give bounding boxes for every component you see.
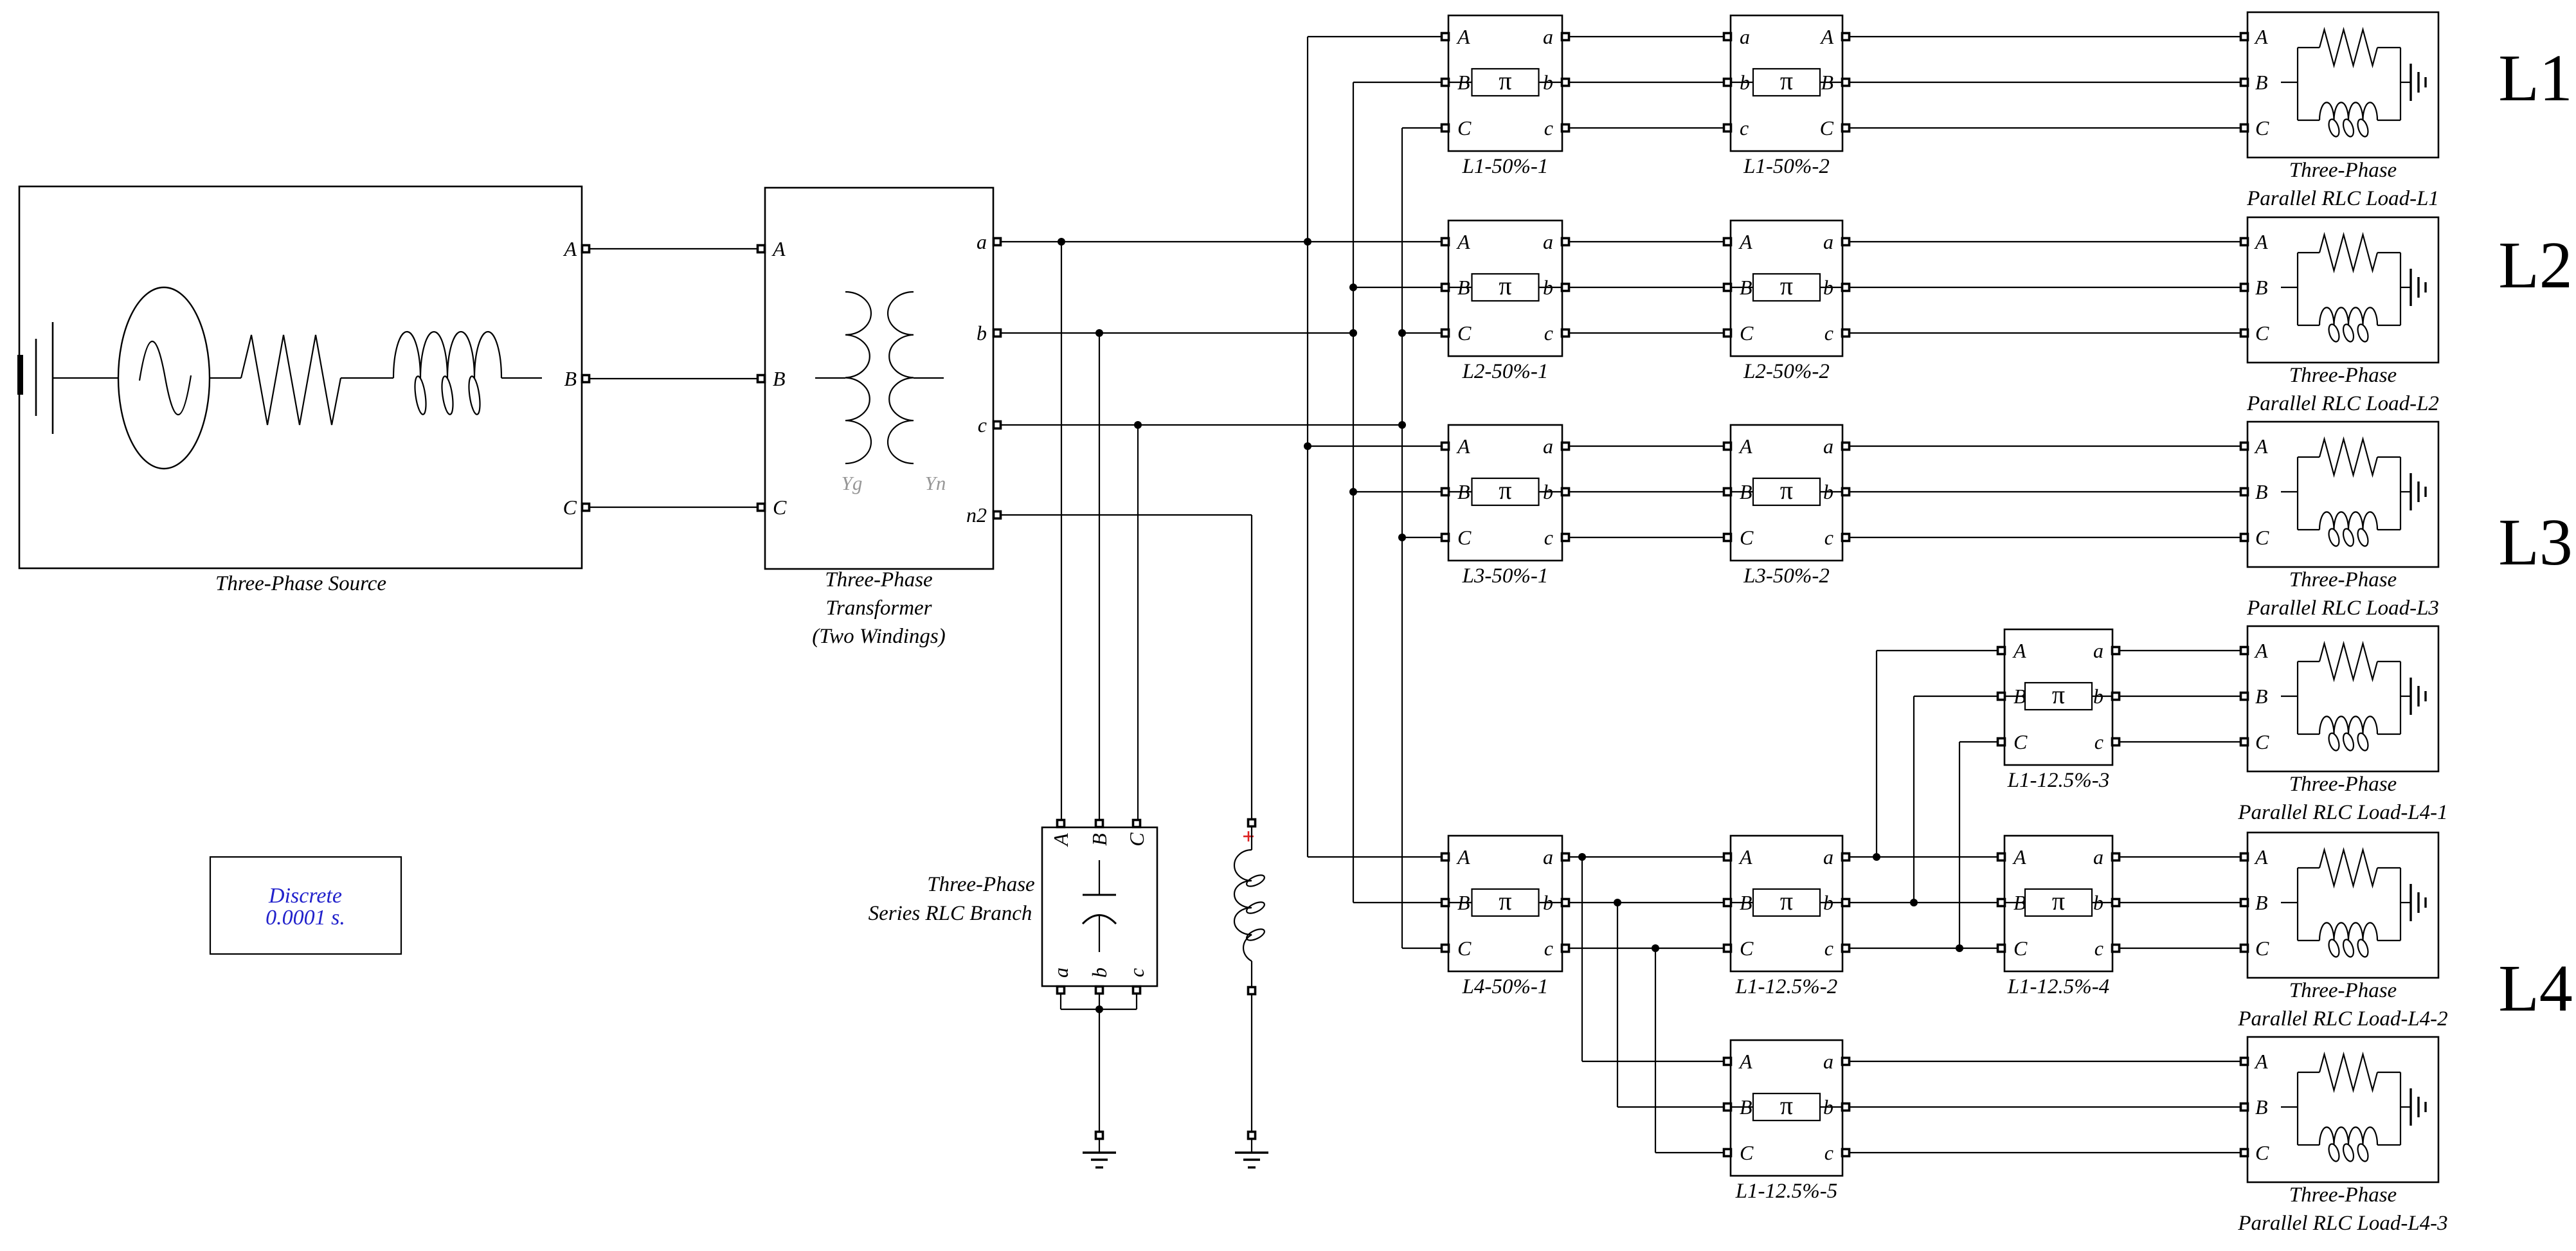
wire phase a line — [1000, 241, 1445, 242]
svg-text:L3: L3 — [2498, 505, 2573, 579]
source inductor loop 3 — [467, 375, 482, 415]
wire bus c to L1-50%-1 C — [1402, 127, 1445, 129]
svg-text:c: c — [1824, 526, 1833, 549]
Load-L4-1 left rail — [2297, 661, 2298, 734]
series RLC capacitor lead top — [1099, 860, 1100, 895]
svg-text:Three-Phase Source: Three-Phase Source — [215, 572, 386, 595]
Load-L1 inductor L loop 1 — [2327, 118, 2341, 138]
ground port square (RLC) — [1096, 1132, 1103, 1139]
svg-text:Parallel RLC Load-L2: Parallel RLC Load-L2 — [2246, 392, 2439, 415]
series RLC branch port b — [1096, 987, 1103, 994]
Load-L3 top branch wire2 — [2377, 456, 2400, 458]
Load-L4-1 inductor L loop 2 — [2341, 732, 2355, 752]
svg-text:C: C — [2013, 730, 2028, 753]
svg-text:Discrete: Discrete — [268, 884, 342, 908]
svg-text:b: b — [1823, 480, 1833, 503]
transformer port a — [994, 239, 1001, 246]
junction RLC join — [1095, 1005, 1103, 1013]
Load-L4-2 ground stub — [2400, 902, 2411, 903]
inductor Ln lead top — [1251, 827, 1252, 850]
Load-L1 ground stub — [2400, 82, 2411, 83]
Load-L1 inductor L loop 2 — [2341, 118, 2355, 138]
Load-L4-3 stub from B — [2281, 1106, 2298, 1108]
svg-text:b: b — [2093, 891, 2103, 914]
wire L1-12.5%-3 b to load L4-1 — [2119, 696, 2241, 697]
svg-text:B: B — [2255, 276, 2268, 299]
Load-L4-2 port C — [2241, 945, 2248, 952]
wire source A to transformer A — [589, 248, 761, 249]
Load-L1 port B — [2241, 79, 2248, 86]
source wire AC to R — [210, 377, 241, 379]
wire bus a to L1-50%-1 A — [1308, 36, 1445, 37]
svg-text:B: B — [2255, 685, 2268, 708]
svg-text:a: a — [977, 230, 987, 253]
wire bus b to L4-50%-1 B — [1353, 902, 1445, 903]
svg-text:c: c — [1824, 937, 1833, 960]
L3-50%-2 port B (left) — [1724, 489, 1731, 496]
three-phase parallel RLC load Load-L4-1 outline — [2247, 626, 2438, 771]
transformer port B — [758, 375, 765, 382]
inductor Ln loop 3 — [1245, 927, 1266, 942]
L3-50%-1 inner pi box — [1472, 478, 1539, 505]
L1-12.5%-4 stub b-right — [2092, 902, 2112, 903]
junction tap a to L1-12.5%-3 — [1873, 853, 1880, 861]
source inductor loop 1 — [413, 375, 428, 415]
svg-text:b: b — [1543, 891, 1553, 914]
junction a-drop — [1058, 238, 1065, 246]
wire bus a to L3-50%-1 A — [1308, 446, 1445, 447]
svg-text:a: a — [1543, 230, 1553, 253]
svg-text:Parallel RLC Load-L3: Parallel RLC Load-L3 — [2246, 597, 2439, 620]
wire source B to transformer B — [589, 378, 761, 379]
L1-12.5%-5 port c (right) — [1842, 1149, 1850, 1156]
svg-text:a: a — [1823, 435, 1833, 458]
svg-text:B: B — [564, 367, 577, 390]
Load-L1 right rail — [2400, 48, 2401, 120]
svg-text:A: A — [1738, 230, 1752, 253]
Load-L1 inductor L loop 3 — [2356, 118, 2370, 138]
svg-text:B: B — [2255, 891, 2268, 914]
source internal ground bar short — [35, 339, 37, 416]
wire L1-12.5%-2 a to L1-12.5%-4 — [1849, 856, 1998, 858]
svg-text:a: a — [1823, 230, 1833, 253]
Load-L4-3 top branch wire2 — [2377, 1072, 2400, 1073]
AC source sine wave — [140, 341, 191, 415]
junction bus-b L2 — [1349, 283, 1357, 291]
wire phase c line — [1000, 424, 1402, 426]
wire RLC b down — [1099, 993, 1100, 1009]
wire L1 col2 c to load — [1849, 127, 2241, 129]
Load-L4-1 resistor R — [2319, 643, 2377, 679]
transmission line block L1-12.5%-5 outline — [1731, 1040, 1842, 1176]
source port A — [582, 246, 590, 253]
wire L3 col1 b to col2 — [1569, 491, 1724, 492]
inductor Ln top port — [1248, 820, 1256, 827]
Load-L4-3 inductor L loop 3 — [2356, 1143, 2370, 1163]
three-phase series RLC branch outline — [1042, 827, 1157, 986]
Load-L4-1 bottom branch wire2 — [2377, 733, 2400, 735]
Load-L4-1 ground bar1 — [2409, 678, 2411, 715]
Load-L3 inductor L loop 3 — [2356, 528, 2370, 548]
L1-50%-1 port C (left) — [1442, 125, 1449, 132]
L1-12.5%-5 port B (left) — [1724, 1104, 1731, 1111]
junction bus-a tap — [1304, 238, 1311, 246]
Load-L4-2 inductor L loop 3 — [2356, 939, 2370, 959]
Load-L4-2 inductor L bumps — [2319, 923, 2377, 941]
Load-L4-3 port C — [2241, 1149, 2248, 1156]
wire L2 col1 a to col2 — [1569, 241, 1724, 242]
Load-L4-2 port A — [2241, 854, 2248, 861]
junction bus-c L3 — [1398, 534, 1406, 541]
transformer primary winding — [845, 292, 871, 464]
svg-text:B: B — [1457, 891, 1470, 914]
svg-text:Three-Phase: Three-Phase — [2289, 773, 2397, 796]
bus a vertical — [1307, 37, 1308, 857]
L1-12.5%-5 port A (left) — [1724, 1058, 1731, 1065]
svg-text:C: C — [2255, 321, 2269, 345]
wire RLC a down — [1060, 993, 1061, 1009]
Load-L4-1 bottom branch wire — [2298, 733, 2319, 735]
wire n2 vertical to inductor — [1251, 515, 1252, 820]
L1-50%-2 stub b-right — [1820, 82, 1842, 83]
svg-text:C: C — [1125, 833, 1148, 847]
svg-text:C: C — [1820, 116, 1834, 139]
L3-50%-2 port c (right) — [1842, 534, 1850, 541]
wire tap a to L1-12.5%-5 input — [1582, 1061, 1724, 1062]
source internal ground bar tall — [52, 322, 54, 434]
Load-L1 resistor R — [2319, 30, 2377, 66]
inductor Ln bumps — [1234, 850, 1252, 961]
wire n2 horizontal — [1000, 514, 1252, 516]
three-phase parallel RLC load Load-L1 outline — [2247, 12, 2438, 157]
svg-text:A: A — [2254, 230, 2268, 253]
Load-L2 left rail — [2297, 253, 2298, 325]
Load-L3 top branch wire — [2298, 456, 2319, 458]
wire Ln to ground — [1251, 994, 1252, 1132]
svg-text:L1-12.5%-2: L1-12.5%-2 — [1735, 975, 1838, 998]
Load-L4-2 inductor L loop 2 — [2341, 939, 2355, 959]
svg-text:c: c — [1824, 1141, 1833, 1164]
Load-L4-2 ground bar3 — [2424, 897, 2426, 908]
transformer secondary stub — [914, 377, 944, 379]
svg-text:A: A — [1738, 435, 1752, 458]
svg-text:C: C — [1740, 526, 1754, 549]
svg-text:Parallel RLC Load-L1: Parallel RLC Load-L1 — [2246, 187, 2439, 210]
wire L1-12.5%-3 c to load L4-1 — [2119, 741, 2241, 742]
wire L1-12.5%-5 b to load L4-3 — [1849, 1106, 2241, 1108]
svg-text:L1-12.5%-3: L1-12.5%-3 — [2007, 769, 2110, 792]
L1-12.5%-2 port C (left) — [1724, 945, 1731, 952]
svg-text:L2-50%-2: L2-50%-2 — [1743, 360, 1830, 383]
Load-L2 inductor L loop 1 — [2327, 323, 2341, 343]
L4-50%-1 inner pi box — [1472, 889, 1539, 916]
svg-text:Parallel RLC Load-L4-1: Parallel RLC Load-L4-1 — [2237, 801, 2447, 824]
Load-L2 top branch wire — [2298, 252, 2319, 253]
source wire R to L — [341, 377, 393, 379]
junction c-drop — [1134, 421, 1142, 429]
svg-text:B: B — [773, 367, 786, 390]
Ln neutral wire to ground — [1251, 1138, 1252, 1153]
L1-12.5%-3 stub b-right — [2092, 696, 2112, 697]
L3-50%-1 port A (left) — [1442, 443, 1449, 450]
junction bus-b tap — [1349, 329, 1357, 337]
svg-text:A: A — [1456, 845, 1470, 869]
svg-text:b: b — [2093, 685, 2103, 708]
L4-50%-1 port b (right) — [1562, 899, 1569, 906]
svg-text:b: b — [1088, 968, 1111, 978]
L2-50%-1 stub b-right — [1539, 287, 1563, 288]
three-phase transformer block outline — [765, 188, 993, 569]
Load-L4-3 inductor L loop 1 — [2327, 1143, 2341, 1163]
svg-text:a: a — [2093, 845, 2103, 869]
svg-text:A: A — [1456, 435, 1470, 458]
Load-L4-3 port A — [2241, 1058, 2248, 1065]
wire L1-12.5%-3 a to load L4-1 — [2119, 650, 2241, 651]
bus c vertical — [1401, 128, 1403, 948]
svg-text:Three-Phase: Three-Phase — [2289, 568, 2397, 591]
svg-text:c: c — [1544, 937, 1553, 960]
transmission line block L2-50%-1 outline — [1448, 221, 1562, 356]
svg-text:L2: L2 — [2498, 228, 2573, 302]
L1-12.5%-5 stub b-right — [1820, 1106, 1842, 1108]
wire tap c to L1-12.5%-5 input — [1655, 1152, 1724, 1153]
L1-12.5%-4 inner pi box — [2025, 889, 2092, 916]
Load-L2 resistor R — [2319, 235, 2377, 271]
svg-text:C: C — [2255, 526, 2269, 549]
junction tap a to L1-12.5%-5 — [1578, 853, 1586, 861]
L1-50%-1 port a (right) — [1562, 33, 1569, 40]
series RLC capacitor plate — [1083, 894, 1116, 896]
wire bus b to L1-50%-1 B — [1353, 82, 1445, 83]
transmission line block L4-50%-1 outline — [1448, 836, 1562, 971]
svg-text:C: C — [1457, 937, 1472, 960]
svg-text:π: π — [1499, 66, 1511, 95]
L2-50%-2 port B (left) — [1724, 284, 1731, 291]
source inductor loop 2 — [440, 375, 455, 415]
Load-L4-1 port C — [2241, 739, 2248, 746]
Load-L3 resistor R — [2319, 439, 2377, 475]
Load-L4-1 stub from B — [2281, 696, 2298, 697]
Load-L4-1 port A — [2241, 647, 2248, 654]
svg-text:B: B — [2255, 480, 2268, 503]
L1-12.5%-2 inner pi box — [1753, 889, 1820, 916]
L3-50%-1 port C (left) — [1442, 534, 1449, 541]
junction bus-c L2 — [1398, 329, 1406, 337]
wire L1 col1 b to col2 — [1569, 82, 1724, 83]
svg-text:A: A — [1456, 230, 1470, 253]
svg-text:c: c — [1125, 968, 1148, 977]
L3-50%-2 port a (right) — [1842, 443, 1850, 450]
L2-50%-2 inner pi box — [1753, 274, 1820, 301]
svg-text:Three-Phase: Three-Phase — [2289, 159, 2397, 182]
svg-text:a: a — [1543, 25, 1553, 48]
Ln neutral ground bar1 — [1235, 1151, 1268, 1153]
L1-12.5%-4 port C (left) — [1998, 945, 2005, 952]
Load-L2 bottom branch wire — [2298, 325, 2319, 326]
inductor Ln loop 2 — [1245, 900, 1266, 915]
Load-L2 port B — [2241, 284, 2248, 291]
Load-L4-3 right rail — [2400, 1072, 2401, 1145]
L3-50%-1 stub B-left — [1448, 491, 1472, 492]
RLC neutral ground bar1 — [1083, 1151, 1116, 1153]
Load-L1 stub from B — [2281, 82, 2298, 83]
three-phase parallel RLC load Load-L4-2 outline — [2247, 833, 2438, 978]
svg-text:c: c — [2094, 937, 2103, 960]
L1-50%-2 port B (right) — [1842, 79, 1850, 86]
L1-12.5%-5 inner pi box — [1753, 1093, 1820, 1120]
junction tap c to L1-12.5%-5 — [1652, 944, 1659, 952]
wire L1 col1 a to col2 — [1569, 36, 1724, 37]
Load-L1 ground bar3 — [2424, 77, 2426, 87]
svg-text:b: b — [1543, 71, 1553, 94]
series RLC branch port C — [1133, 820, 1140, 827]
L1-12.5%-3 port b (right) — [2112, 693, 2120, 700]
L4-50%-1 port A (left) — [1442, 854, 1449, 861]
svg-text:a: a — [2093, 639, 2103, 662]
L2-50%-2 port b (right) — [1842, 284, 1850, 291]
transmission line block L1-12.5%-2 outline — [1731, 836, 1842, 971]
svg-text:C: C — [2255, 937, 2269, 960]
Load-L1 bottom branch wire — [2298, 120, 2319, 121]
svg-text:L1-50%-1: L1-50%-1 — [1462, 155, 1549, 178]
series RLC branch port B — [1096, 820, 1103, 827]
transmission line block L3-50%-1 outline — [1448, 425, 1562, 561]
L2-50%-1 stub B-left — [1448, 287, 1472, 288]
transformer secondary winding — [888, 292, 914, 464]
L3-50%-2 inner pi box — [1753, 478, 1820, 505]
RLC neutral ground bar3 — [1095, 1166, 1103, 1168]
svg-text:L1-50%-2: L1-50%-2 — [1743, 155, 1830, 178]
Load-L1 left rail — [2297, 48, 2298, 120]
transformer port n2 — [994, 512, 1001, 519]
Load-L4-1 top branch wire2 — [2377, 661, 2400, 662]
svg-text:a: a — [1049, 968, 1072, 978]
L1-50%-1 stub b-right — [1539, 82, 1563, 83]
Load-L4-3 inductor L loop 2 — [2341, 1143, 2355, 1163]
Load-L4-2 stub from B — [2281, 902, 2298, 903]
svg-text:A: A — [1819, 25, 1833, 48]
svg-text:π: π — [1499, 271, 1511, 300]
L1-50%-1 stub B-left — [1448, 82, 1472, 83]
svg-text:a: a — [1543, 435, 1553, 458]
wire bus c to L2-50%-1 C — [1402, 332, 1445, 334]
L2-50%-1 port b (right) — [1562, 284, 1569, 291]
Load-L4-3 resistor R — [2319, 1054, 2377, 1090]
svg-text:π: π — [1780, 1091, 1793, 1120]
svg-text:A: A — [2254, 1050, 2268, 1073]
svg-text:A: A — [2012, 845, 2026, 869]
Load-L3 bottom branch wire2 — [2377, 529, 2400, 530]
transformer port A — [758, 246, 765, 253]
Load-L4-2 bottom branch wire2 — [2377, 940, 2400, 941]
svg-text:L1: L1 — [2498, 41, 2573, 115]
Load-L1 top branch wire2 — [2377, 47, 2400, 48]
L3-50%-2 port C (left) — [1724, 534, 1731, 541]
Load-L3 inductor L loop 2 — [2341, 528, 2355, 548]
L3-50%-2 port A (left) — [1724, 443, 1731, 450]
junction b-drop — [1095, 329, 1103, 337]
svg-text:A: A — [563, 237, 577, 260]
svg-text:C: C — [1457, 526, 1472, 549]
L2-50%-1 port c (right) — [1562, 330, 1569, 337]
wire L3 col2 c to load — [1849, 537, 2241, 538]
svg-text:C: C — [2013, 937, 2028, 960]
Load-L4-3 bottom branch wire — [2298, 1144, 2319, 1146]
wire tap a vertical up — [1876, 651, 1877, 857]
svg-text:C: C — [1457, 116, 1472, 139]
svg-text:C: C — [773, 496, 787, 519]
Load-L4-3 port B — [2241, 1104, 2248, 1111]
wire L3 col1 a to col2 — [1569, 446, 1724, 447]
Load-L3 bottom branch wire — [2298, 529, 2319, 530]
svg-text:A: A — [2254, 25, 2268, 48]
Load-L2 ground bar1 — [2409, 269, 2411, 306]
svg-text:A: A — [771, 237, 786, 260]
svg-text:B: B — [1457, 71, 1470, 94]
svg-text:c: c — [1544, 526, 1553, 549]
transformer primary stub — [815, 377, 845, 379]
wire L2 col2 b to load — [1849, 287, 2241, 288]
transmission line block L1-50%-1 outline — [1448, 15, 1562, 151]
L1-50%-2 port c (left) — [1724, 125, 1731, 132]
svg-text:π: π — [1780, 271, 1793, 300]
svg-text:A: A — [1456, 25, 1470, 48]
svg-text:n2: n2 — [966, 503, 987, 526]
L2-50%-2 port C (left) — [1724, 330, 1731, 337]
wire L3 col2 a to load — [1849, 446, 2241, 447]
svg-text:Yn: Yn — [925, 472, 946, 494]
Load-L1 inductor L bumps — [2319, 102, 2377, 120]
Load-L2 inductor L loop 2 — [2341, 323, 2355, 343]
L1-12.5%-5 port a (right) — [1842, 1058, 1850, 1065]
Load-L2 ground bar2 — [2417, 277, 2419, 298]
series RLC branch port a — [1058, 987, 1065, 994]
L1-50%-1 port b (right) — [1562, 79, 1569, 86]
svg-text:0.0001 s.: 0.0001 s. — [266, 906, 345, 930]
Load-L3 ground bar2 — [2417, 482, 2419, 502]
Load-L4-1 ground bar3 — [2424, 691, 2426, 701]
L2-50%-1 port B (left) — [1442, 284, 1449, 291]
Load-L4-3 ground bar1 — [2409, 1088, 2411, 1126]
svg-text:(Two Windings): (Two Windings) — [812, 625, 946, 648]
bus b vertical — [1353, 82, 1354, 903]
ground port square (Ln) — [1248, 1132, 1256, 1139]
Load-L4-3 inductor L bumps — [2319, 1127, 2377, 1145]
Load-L2 top branch wire2 — [2377, 252, 2400, 253]
svg-text:Three-Phase: Three-Phase — [2289, 979, 2397, 1002]
L1-12.5%-4 port c (right) — [2112, 945, 2120, 952]
wire L1 col2 a to load — [1849, 36, 2241, 37]
wire L1 col1 c to col2 — [1569, 127, 1724, 129]
Load-L4-2 right rail — [2400, 868, 2401, 941]
svg-text:C: C — [1740, 937, 1754, 960]
svg-text:C: C — [1740, 321, 1754, 345]
Load-L3 ground bar1 — [2409, 473, 2411, 510]
Ln neutral ground bar3 — [1248, 1166, 1256, 1168]
svg-text:B: B — [2255, 71, 2268, 94]
AC voltage source circle — [118, 287, 210, 469]
Load-L2 stub from B — [2281, 287, 2298, 288]
L1-12.5%-4 port a (right) — [2112, 854, 2120, 861]
L1-12.5%-5 stub B-left — [1731, 1106, 1753, 1108]
svg-text:B: B — [1457, 480, 1470, 503]
wire L2 col1 b to col2 — [1569, 287, 1724, 288]
L3-50%-1 stub b-right — [1539, 491, 1563, 492]
svg-text:c: c — [978, 413, 987, 437]
L1-12.5%-4 port b (right) — [2112, 899, 2120, 906]
L2-50%-1 inner pi box — [1472, 274, 1539, 301]
svg-text:c: c — [1544, 321, 1553, 345]
